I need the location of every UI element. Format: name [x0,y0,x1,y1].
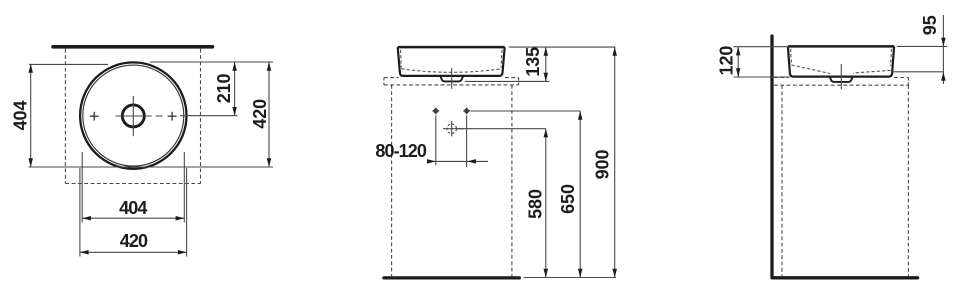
svg-text:420: 420 [120,231,148,251]
svg-text:120: 120 [717,46,737,76]
svg-text:404: 404 [10,101,30,131]
svg-text:580: 580 [525,189,545,219]
svg-text:420: 420 [250,99,270,129]
svg-text:210: 210 [214,73,234,103]
svg-text:900: 900 [592,150,612,180]
svg-text:404: 404 [119,198,147,218]
svg-text:650: 650 [558,184,578,214]
svg-text:135: 135 [523,47,543,77]
svg-text:80-120: 80-120 [375,141,427,161]
svg-text:95: 95 [920,15,940,35]
